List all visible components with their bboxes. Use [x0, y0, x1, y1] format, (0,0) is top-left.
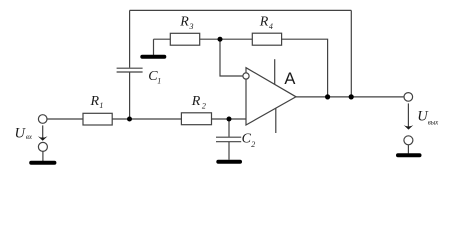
svg-text:R: R: [179, 15, 189, 30]
wire R4 right lead down to output line: [282, 39, 328, 97]
svg-text:R: R: [90, 94, 100, 109]
op-amp upper stub pin: [274, 59, 276, 84]
svg-text:R: R: [191, 94, 201, 109]
op-amp A triangle: [246, 68, 296, 125]
op-amp lower stub pin: [275, 108, 277, 133]
wire node down to inverting input: [220, 39, 243, 76]
resistor R1: [83, 113, 112, 125]
wire R1 to R2: [112, 118, 181, 120]
capacitor C2: [216, 137, 241, 142]
capacitor C1: [117, 68, 143, 72]
svg-text:4: 4: [269, 22, 273, 31]
node junction top wire/output line: [349, 94, 354, 99]
wire right vertical from top wire to output line: [350, 10, 352, 97]
wire output arrow shaft: [407, 103, 409, 127]
wire left vertical upper (top wire to C1): [129, 10, 131, 67]
ground bar (output): [398, 153, 420, 157]
wire left vertical lower (C1 to input line): [129, 73, 131, 120]
input lower terminal circle: [38, 142, 47, 151]
svg-text:3: 3: [189, 22, 194, 31]
wire C2 stem upper: [228, 119, 230, 137]
svg-text:1: 1: [157, 76, 161, 85]
node junction R4 feedback/output line: [325, 94, 330, 99]
wire input arrow shaft: [42, 125, 44, 138]
wire C2 stem lower: [228, 142, 230, 160]
resistor R2: [181, 113, 211, 125]
svg-text:вых: вых: [428, 118, 439, 126]
wire input to R1: [47, 118, 83, 120]
node junction C1/input line: [127, 117, 132, 122]
wire input ground stem: [42, 151, 44, 161]
node junction R3/R4: [218, 37, 223, 42]
input terminal circle: [38, 115, 47, 124]
svg-text:2: 2: [251, 140, 255, 149]
wire node to R4: [220, 38, 252, 40]
input arrowhead: [38, 136, 48, 141]
svg-text:2: 2: [202, 102, 206, 111]
node junction C2/input line: [227, 117, 232, 122]
svg-text:U: U: [15, 125, 27, 141]
wire top horizontal: [130, 9, 352, 11]
ground bar (input): [31, 161, 54, 165]
wire R2 to op-amp noninverting input: [212, 118, 247, 120]
resistor R3: [170, 33, 199, 45]
wire R3 to node: [200, 38, 220, 40]
svg-text:A: A: [284, 70, 295, 88]
output arrowhead: [404, 125, 414, 130]
inverting input bubble: [243, 73, 249, 79]
wire output ground stem: [407, 145, 409, 154]
svg-text:R: R: [259, 15, 269, 30]
ground bar (R3): [142, 55, 164, 59]
output lower terminal circle: [404, 136, 413, 145]
resistor R4: [252, 33, 281, 45]
output terminal circle: [404, 93, 413, 102]
wire R3 left lead: [154, 38, 171, 40]
svg-text:вх: вх: [26, 133, 33, 141]
wire op-amp output: [296, 96, 404, 98]
ground bar (C2): [218, 160, 240, 164]
svg-text:1: 1: [99, 101, 103, 110]
svg-text:C: C: [242, 132, 252, 147]
wire ground stem of R3: [153, 39, 155, 55]
